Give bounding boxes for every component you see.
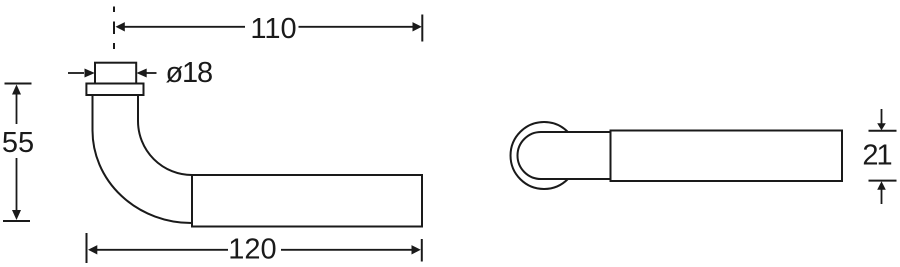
- dimension 110 arrowhead right: [413, 22, 422, 31]
- dimension 21 arrow bottom: [877, 181, 886, 190]
- dimension 110 line right segment: [299, 26, 418, 28]
- neck end cap (plan view semicircle): [518, 132, 542, 179]
- handle inner contour (neck to grip curve): [138, 95, 192, 175]
- dimension 110 extension tick right: [421, 15, 423, 42]
- svg-text:110: 110: [250, 13, 296, 45]
- dimension 55 extension tick bottom: [3, 220, 30, 222]
- svg-text:21: 21: [862, 140, 891, 172]
- handle collar (rose flange): [86, 84, 143, 96]
- dimension 110 arrowhead left: [116, 22, 125, 31]
- dimension ø18 arrow right: [146, 72, 157, 74]
- dimension 120 arrowhead left: [88, 245, 97, 254]
- dimension 55 arrow top: [12, 85, 21, 95]
- handle grip (side view bar): [192, 175, 422, 227]
- dimension 21 extension tick top: [869, 130, 897, 132]
- dimension 120 extension tick left: [86, 233, 88, 263]
- dimension 120 line right segment: [281, 249, 416, 251]
- dimension ø18 arrow left: [68, 72, 84, 74]
- dimension 21 extension tick bottom: [869, 180, 897, 182]
- handle neck top block (spindle hub): [95, 63, 136, 84]
- rose circle (plan view, clipped behind neck): [511, 122, 568, 189]
- svg-text:120: 120: [228, 234, 276, 266]
- dimension 120 line left segment: [94, 249, 228, 251]
- dimension 21 arrow top: [881, 109, 883, 125]
- neck bottom edge (plan view): [541, 178, 611, 180]
- dimension 55 arrow bottom: [16, 158, 18, 213]
- handle outer contour (neck to grip curve): [93, 95, 193, 223]
- dimension 110 line left segment: [121, 26, 245, 28]
- handle grip (plan view bar): [611, 131, 843, 182]
- svg-text:ø18: ø18: [166, 57, 212, 89]
- dimension 120 arrowhead right: [412, 245, 421, 254]
- dimension 55 extension tick top: [5, 83, 32, 85]
- neck top edge (plan view): [541, 131, 611, 133]
- dimension 120 extension tick right: [421, 239, 423, 262]
- centerline (dashed spindle axis): [113, 7, 115, 50]
- svg-text:55: 55: [2, 127, 34, 159]
